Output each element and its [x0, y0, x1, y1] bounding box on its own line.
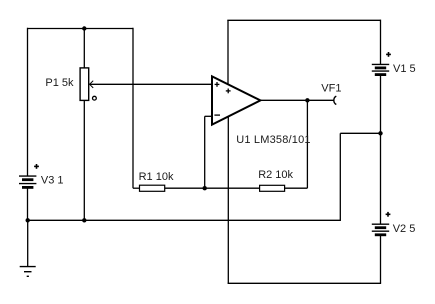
svg-text:R1 10k: R1 10k: [139, 171, 174, 183]
svg-text:V3 1: V3 1: [41, 175, 64, 187]
svg-text:U1 LM358/101: U1 LM358/101: [236, 134, 311, 146]
svg-text:R2 10k: R2 10k: [258, 169, 293, 181]
svg-text:V1 5: V1 5: [393, 63, 416, 75]
svg-text:V2 5: V2 5: [393, 223, 416, 235]
svg-text:P1 5k: P1 5k: [45, 77, 74, 89]
svg-text:VF1: VF1: [321, 83, 341, 95]
